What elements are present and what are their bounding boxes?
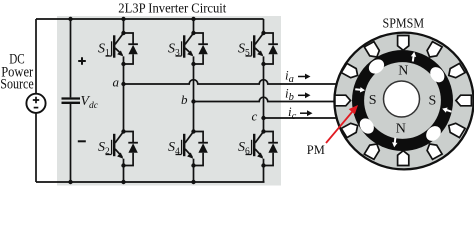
svg-text:N: N <box>398 63 408 78</box>
stator slot 120deg <box>364 42 379 57</box>
junction bottom bus leg1 <box>121 180 125 184</box>
magnetization arrow S left inward <box>355 87 365 92</box>
bottom bus wire <box>36 181 265 183</box>
junction top bus leg2 <box>191 17 195 21</box>
svg-text:Source: Source <box>0 76 34 92</box>
node a dot <box>121 82 125 86</box>
phase c wire <box>264 117 336 119</box>
top bus wire <box>36 18 264 20</box>
dc source V1 circle <box>26 94 45 113</box>
junction bottom bus leg2 <box>191 180 195 184</box>
stator slot -120deg <box>364 144 379 159</box>
wire dc source to top bus <box>35 19 37 93</box>
magnet gap circle 4 <box>423 123 444 144</box>
stator slot 180deg <box>335 95 351 106</box>
leg2 lower wire <box>193 166 195 183</box>
magnet gap circle 3 <box>357 116 377 137</box>
dc source plus <box>33 97 39 103</box>
stator slot 150deg <box>341 63 357 77</box>
magnet gap circle 2 <box>366 56 387 76</box>
rotor core gray circle <box>364 62 441 139</box>
svg-text:c: c <box>252 109 258 124</box>
node c dot <box>261 116 265 120</box>
magnetization arrow N top outward <box>411 52 416 62</box>
svg-text:2L3P Inverter Circuit: 2L3P Inverter Circuit <box>118 0 226 15</box>
magnet gap circle 1 <box>427 64 447 85</box>
leg1 lower wire <box>123 166 125 183</box>
svg-text:PM: PM <box>307 142 325 157</box>
leg1 mid wire <box>123 64 125 132</box>
svg-text:SPMSM: SPMSM <box>383 15 425 30</box>
igbt S6 cell <box>246 129 278 167</box>
phase b wire with hop <box>194 97 336 101</box>
leg3 lower wire <box>263 166 265 183</box>
stator slot 30deg <box>449 63 465 77</box>
svg-text:S: S <box>429 94 437 109</box>
stator slot 60deg <box>427 42 442 57</box>
magnetization arrow S right inward <box>442 108 452 113</box>
igbt S4 cell <box>176 129 208 167</box>
igbt S3 cell <box>176 31 208 66</box>
stator slot 0deg <box>456 95 472 106</box>
stator slot -60deg <box>427 144 442 159</box>
shaft white circle <box>384 81 420 117</box>
magnetization arrow N bottom outward <box>392 138 397 148</box>
rotor PM black ring <box>352 50 453 151</box>
inverter shaded box <box>57 16 281 186</box>
leg1 upper wire <box>123 19 125 33</box>
svg-text:N: N <box>396 121 406 136</box>
junction top bus capacitor <box>68 17 72 21</box>
stator slot 90deg <box>398 36 409 51</box>
junction bottom bus capacitor <box>68 180 72 184</box>
leg2 mid wire <box>193 64 195 132</box>
wire dc source to bottom bus <box>35 113 37 182</box>
motor stator outer circle <box>334 33 473 170</box>
igbt S2 cell <box>106 129 138 167</box>
node b dot <box>191 99 195 103</box>
leg2 upper wire <box>193 19 195 33</box>
igbt S5 cell <box>246 31 278 66</box>
dc source minus <box>34 107 39 109</box>
svg-text:b: b <box>181 92 188 107</box>
capacitor branch bottom wire <box>70 104 72 182</box>
stator slot -30deg <box>449 123 465 137</box>
phase a wire with hops <box>124 80 336 84</box>
svg-text:S: S <box>369 93 377 108</box>
capacitor branch top wire <box>70 19 72 97</box>
leg3 mid wire <box>263 64 265 132</box>
label plus Vdc <box>78 57 86 65</box>
PM red arrow <box>326 112 353 144</box>
igbt S1 cell <box>106 31 138 66</box>
stator slot -150deg <box>341 123 357 137</box>
junction top bus leg1 <box>121 17 125 21</box>
stator slot -90deg <box>398 151 409 166</box>
leg3 upper wire <box>263 19 265 33</box>
svg-text:a: a <box>113 75 120 90</box>
capacitor C plates <box>62 99 81 103</box>
label minus Vdc <box>78 140 86 142</box>
